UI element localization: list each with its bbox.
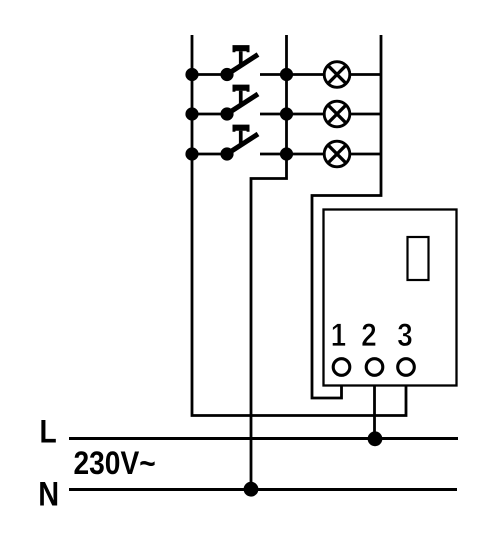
wire: terminal 2 down to L line	[373, 377, 376, 439]
svg-text:2: 2	[361, 318, 377, 353]
wire: right lamp return bus down with jog left, to terminal 1	[312, 35, 381, 398]
wire: row 2 right segment through lamp	[260, 113, 381, 116]
L line	[69, 437, 458, 440]
svg-text:L: L	[40, 415, 57, 450]
lamp E1	[324, 62, 350, 88]
wire: row 1 left segment	[192, 73, 227, 76]
pushbutton S3	[220, 125, 258, 161]
svg-text:230V~: 230V~	[74, 446, 156, 481]
node: row 1 left junction	[185, 68, 198, 81]
node: row 3 middle junction	[280, 147, 293, 160]
svg-text:N: N	[38, 474, 59, 513]
lamp E2	[324, 101, 350, 127]
terminal 1	[333, 359, 350, 376]
svg-text:3: 3	[397, 318, 413, 353]
terminal 3	[398, 359, 415, 376]
node: terminal 2 to L junction	[368, 431, 383, 446]
lamp E3	[324, 141, 350, 167]
wire: middle bus down with jog left, to N line	[251, 35, 287, 490]
N line	[69, 488, 457, 491]
terminal 2	[366, 359, 383, 376]
wire: row 1 right segment through lamp	[260, 73, 381, 76]
wire: row 3 right segment through lamp	[260, 153, 381, 156]
node: row 2 left junction	[185, 107, 198, 120]
node: row 2 middle junction	[280, 107, 293, 120]
wire: left vertical bus down, along bottom, up to terminal 3	[192, 35, 406, 416]
wire: row 3 left segment	[192, 153, 227, 156]
node: middle bus to N junction	[244, 482, 259, 497]
wire: row 2 left segment	[192, 113, 227, 116]
pushbutton S1	[220, 45, 258, 81]
relay box U1	[324, 210, 457, 386]
svg-text:1: 1	[331, 318, 347, 353]
node: row 1 middle junction	[280, 68, 293, 81]
pushbutton S2	[220, 85, 258, 121]
indicator window on U1	[408, 237, 429, 280]
node: row 3 left junction	[185, 147, 198, 160]
